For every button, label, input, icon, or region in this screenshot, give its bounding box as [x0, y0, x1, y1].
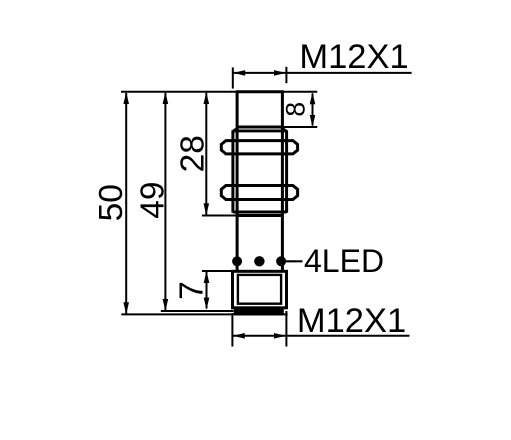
LED dot middle — [254, 256, 264, 266]
top M12X1 right arrow — [274, 70, 286, 76]
connector end black band — [234, 308, 284, 316]
LED dot left — [232, 256, 242, 266]
step chamfer right — [282, 128, 286, 131]
thread bottom edge — [233, 211, 287, 214]
top M12X1 left arrow — [233, 70, 245, 76]
svg-text:28: 28 — [174, 135, 211, 172]
dim 7 up arrow — [204, 271, 210, 283]
dim 8 up arrow — [310, 92, 316, 104]
connector inner rectangle — [238, 275, 281, 304]
hex nut 2 — [221, 186, 297, 200]
thread outer right edge — [285, 130, 288, 213]
thread outer left edge — [231, 130, 234, 213]
dim 7 extension line top — [202, 270, 233, 272]
top face extension line (left of barrel to right, y=91.7) — [121, 91, 317, 93]
svg-text:7: 7 — [174, 281, 211, 300]
svg-text:49: 49 — [134, 181, 171, 218]
bottom extension line for 49 and 7 — [161, 310, 234, 312]
top M12X1 right extension tick — [285, 67, 287, 83]
bottom M12X1 dimension line — [232, 335, 409, 337]
svg-text:4LED: 4LED — [304, 243, 384, 279]
svg-text:M12X1: M12X1 — [297, 302, 406, 340]
shoulder edge + 28-dim extension line — [202, 215, 237, 217]
4LED leader line — [283, 260, 303, 262]
dim 7 down arrow — [204, 298, 210, 310]
body right edge (barrel + tube down to connector) — [281, 91, 284, 272]
step chamfer left — [233, 128, 237, 131]
bottom M12X1 right extension line — [285, 311, 287, 347]
dim 49 line — [164, 93, 166, 310]
barrel bottom edge / 8-dim lower extension — [238, 126, 317, 128]
bottom M12X1 left arrow — [233, 333, 245, 339]
dim 8 line — [312, 94, 314, 126]
dim 28 up arrow — [204, 92, 210, 104]
body left edge (barrel + tube down to connector) — [236, 91, 239, 272]
svg-text:M12X1: M12X1 — [299, 38, 408, 76]
dim 49 up arrow — [163, 92, 169, 104]
dim 8 down arrow — [310, 115, 316, 127]
dim 28 line — [205, 93, 207, 215]
hex nut 1 — [221, 141, 297, 154]
dim 49 down arrow — [163, 299, 169, 311]
svg-text:8: 8 — [281, 102, 311, 117]
thread top edge — [233, 129, 287, 132]
barrel top edge — [236, 90, 284, 93]
bottom M12X1 right arrow — [274, 333, 286, 339]
dim 28 down arrow — [204, 203, 210, 215]
connector outer rectangle — [233, 271, 287, 308]
bottom M12X1 left extension line — [231, 313, 233, 347]
dim 50 up arrow — [123, 92, 129, 104]
dim 50 line — [125, 93, 127, 314]
bottom extension line for 50 — [121, 313, 287, 315]
svg-text:50: 50 — [93, 184, 130, 221]
dim 7 line — [206, 272, 208, 309]
LED dot right — [276, 256, 286, 266]
top M12X1 dimension line — [233, 72, 412, 74]
dim 50 down arrow — [123, 302, 129, 314]
top M12X1 left extension tick — [232, 67, 234, 88]
